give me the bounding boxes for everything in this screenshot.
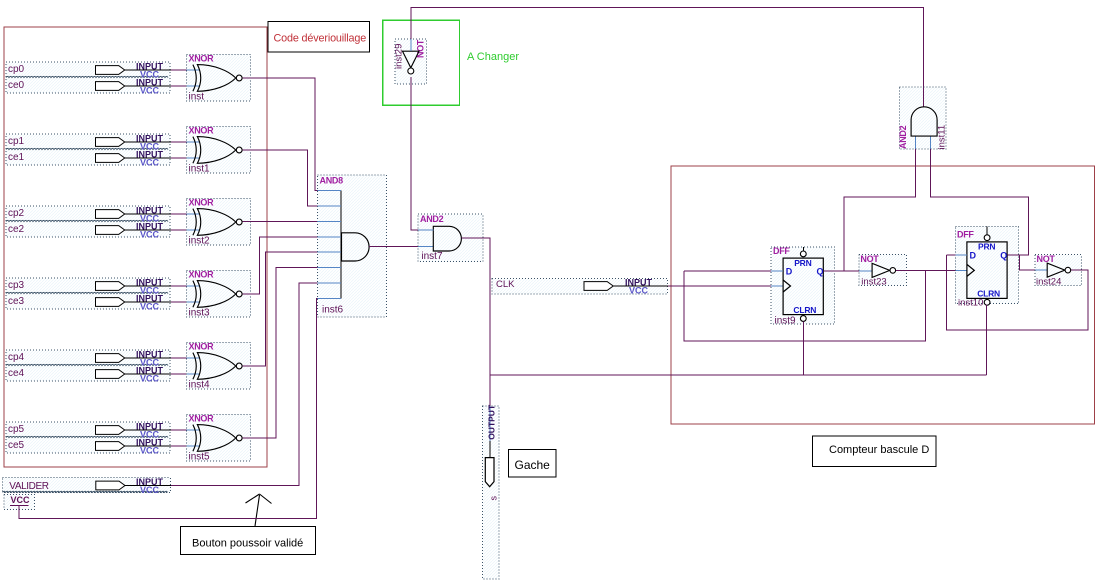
svg-text:AND8: AND8	[320, 175, 344, 185]
wire cp3 to XNOR	[171, 285, 200, 287]
XNOR gate inst3 box	[187, 270, 251, 319]
XNOR gate inst4 box	[187, 342, 251, 391]
svg-text:inst9: inst9	[775, 315, 797, 326]
svg-text:A Changer: A Changer	[467, 51, 519, 63]
input pin cp2	[96, 206, 172, 224]
svg-text:XNOR: XNOR	[189, 270, 215, 280]
svg-text:VCC: VCC	[140, 446, 160, 456]
svg-text:ce1: ce1	[8, 152, 25, 163]
XNOR gate inst2 box	[187, 198, 251, 247]
D flip-flop inst9	[771, 246, 834, 326]
svg-text:Code déveriouillage: Code déveriouillage	[274, 33, 367, 45]
svg-text:inst5: inst5	[189, 452, 211, 463]
svg-text:ce4: ce4	[8, 368, 25, 379]
wire XNOR0 out to AND8 in1	[242, 78, 317, 191]
wire ce5 to XNOR	[171, 445, 200, 447]
svg-text:inst10: inst10	[958, 298, 983, 309]
wire ce3 to XNOR	[171, 301, 200, 303]
NOT gate inst29 (vertical)	[394, 39, 427, 84]
frame: red region box Compteur bascule D	[671, 166, 1095, 424]
label box Gache	[509, 450, 556, 478]
input pin ce3	[96, 294, 172, 312]
wire XNOR2 out to AND8 in3	[242, 221, 317, 223]
wire VALIDER to AND8 in7	[171, 283, 318, 485]
wire XNOR4 out to AND8 in5	[242, 252, 317, 366]
input pin cp5	[96, 422, 172, 440]
svg-text:cp1: cp1	[8, 136, 25, 147]
svg-text:ce5: ce5	[8, 440, 25, 451]
svg-text:VCC: VCC	[140, 302, 160, 312]
svg-text:XNOR: XNOR	[189, 126, 215, 136]
svg-text:D: D	[786, 266, 793, 276]
pin name cp4	[8, 352, 25, 363]
selection box inputs cp4/ce4	[6, 350, 170, 381]
svg-text:XNOR: XNOR	[189, 414, 215, 424]
svg-text:inst2: inst2	[189, 236, 211, 247]
pin name VALIDER	[9, 481, 48, 492]
selection box inputs cp1/ce1	[6, 134, 170, 165]
wire XNOR5 out to AND8 in6	[242, 268, 317, 438]
svg-text:inst7: inst7	[421, 251, 443, 262]
selection box inputs cp3/ce3	[6, 278, 170, 309]
pin name ce4	[8, 368, 25, 379]
frame: red region box Code deverrouillage	[4, 27, 267, 467]
svg-text:DFF: DFF	[957, 230, 974, 240]
wire DFF inst10 CLRN	[986, 305, 988, 376]
svg-text:inst6: inst6	[322, 305, 344, 316]
pin name cp3	[8, 280, 25, 291]
input pin cp4	[96, 350, 172, 368]
XNOR gate inst box	[187, 54, 251, 103]
wire cp1 to XNOR	[171, 141, 200, 143]
wire ce4 to XNOR	[171, 373, 200, 375]
NOT gate inst24	[1035, 254, 1081, 288]
input pin ce1	[96, 150, 172, 168]
svg-text:cp0: cp0	[8, 64, 25, 75]
svg-text:VCC: VCC	[140, 230, 160, 240]
wire cp2 to XNOR	[171, 213, 200, 215]
svg-text:inst23: inst23	[861, 277, 886, 288]
wire cp5 to XNOR	[171, 429, 200, 431]
svg-text:cp4: cp4	[8, 352, 25, 363]
selection box inputs cp0/ce0	[6, 62, 170, 93]
pin name cp1	[8, 136, 25, 147]
wire DFF inst9 D input	[684, 270, 783, 272]
svg-text:cp2: cp2	[8, 208, 25, 219]
svg-text:Q: Q	[1000, 250, 1007, 260]
pin name ce1	[8, 152, 25, 163]
svg-text:ce3: ce3	[8, 296, 25, 307]
svg-text:CLRN: CLRN	[793, 305, 816, 315]
label box Bouton poussoir valide	[181, 526, 316, 554]
wire cp4 to XNOR	[171, 357, 200, 359]
pin name cp5	[8, 424, 25, 435]
selection box VALIDER	[3, 478, 171, 493]
svg-text:VCC: VCC	[140, 158, 160, 168]
input pin cp0	[96, 62, 172, 80]
label A Changer	[467, 51, 519, 63]
svg-text:AND2: AND2	[420, 214, 444, 224]
wire AND8 out to AND2 inst7	[369, 245, 433, 247]
wire NOT23 out to DFF inst10 clock and feedback	[684, 270, 967, 341]
svg-text:VCC: VCC	[140, 86, 160, 96]
pin name cp0	[8, 64, 25, 75]
wire DFF inst9 CLRN	[802, 322, 804, 375]
wire ce1 to XNOR	[171, 157, 200, 159]
svg-text:inst4: inst4	[189, 380, 211, 391]
pin name ce0	[8, 80, 25, 91]
wire CLK to DFF inst9 clock	[668, 285, 783, 287]
label box Code deverrouillage	[268, 21, 370, 52]
output pin s	[483, 404, 500, 579]
svg-text:Q: Q	[817, 266, 824, 276]
XNOR gate inst5 box	[187, 414, 251, 463]
wire AND2 inst11 out to NOT29 in	[411, 8, 924, 107]
AND8 gate inst6	[318, 175, 387, 317]
svg-text:AND2: AND2	[898, 125, 908, 149]
AND2 gate inst7	[418, 214, 483, 262]
svg-text:NOT: NOT	[860, 254, 879, 264]
wire AND2 inst7 out to output node	[461, 238, 490, 458]
svg-text:NOT: NOT	[1037, 254, 1056, 264]
wire NOT24 out feedback to inst10 D	[946, 255, 1088, 330]
svg-text:VCC: VCC	[140, 374, 160, 384]
pin name cp2	[8, 208, 25, 219]
svg-text:XNOR: XNOR	[189, 54, 215, 64]
svg-text:VCC: VCC	[629, 286, 649, 296]
selection box inputs cp5/ce5	[6, 422, 170, 453]
input pin cp3	[96, 278, 172, 296]
pin name ce3	[8, 296, 25, 307]
green highlight box A Changer	[383, 20, 460, 105]
wire ce2 to XNOR	[171, 229, 200, 231]
svg-text:cp3: cp3	[8, 280, 25, 291]
svg-text:D: D	[970, 250, 977, 260]
input pin CLK	[492, 278, 668, 296]
wire reset net to DFF CLRN	[490, 374, 987, 376]
pin name ce2	[8, 224, 25, 235]
svg-text:VCC: VCC	[11, 495, 31, 505]
wire inst10 Q branch to NOT24	[1020, 255, 1048, 270]
svg-text:inst1: inst1	[189, 164, 211, 175]
input pin ce0	[96, 78, 172, 96]
svg-text:OUTPUT: OUTPUT	[486, 404, 496, 440]
svg-text:PRN: PRN	[794, 258, 811, 268]
input pin VALIDER	[96, 477, 171, 495]
VCC power symbol	[4, 494, 34, 509]
svg-text:PRN: PRN	[978, 242, 995, 252]
wire NOT29 out to AND2 inst7 in1	[411, 77, 434, 230]
svg-text:inst11: inst11	[937, 125, 948, 150]
input pin ce2	[96, 222, 172, 240]
D flip-flop inst10	[955, 227, 1018, 309]
svg-text:DFF: DFF	[773, 246, 790, 256]
svg-text:Gache: Gache	[515, 458, 551, 472]
svg-text:Bouton poussoir validé: Bouton poussoir validé	[192, 538, 303, 550]
svg-text:inst3: inst3	[189, 308, 211, 319]
XNOR gate inst1 box	[187, 126, 251, 175]
AND2 gate inst11 (vertical)	[898, 87, 948, 149]
wire XNOR1 out to AND8 in2	[242, 150, 317, 206]
svg-text:inst: inst	[189, 92, 205, 103]
input pin ce5	[96, 438, 172, 456]
wire VCC to AND8 in8	[19, 299, 317, 519]
wire DFF inst10 Q out	[931, 136, 1029, 255]
label box Compteur bascule D	[812, 436, 936, 467]
wire DFF inst9 Q to NOT23	[823, 270, 872, 272]
annotation arrow to VALIDER wire	[246, 494, 272, 526]
svg-text:VALIDER: VALIDER	[9, 481, 48, 492]
NOT gate inst23	[859, 254, 907, 288]
svg-text:XNOR: XNOR	[189, 342, 215, 352]
wire inst11 input stubs	[916, 149, 931, 197]
wire ce0 to XNOR	[171, 85, 200, 87]
svg-text:inst24: inst24	[1036, 277, 1061, 288]
input pin cp1	[96, 134, 172, 152]
selection box inputs cp2/ce2	[6, 206, 170, 237]
wire XNOR3 out to AND8 in4	[242, 237, 317, 294]
svg-text:ce0: ce0	[8, 80, 25, 91]
svg-text:VCC: VCC	[140, 485, 160, 495]
svg-text:s: s	[488, 496, 498, 501]
input pin ce4	[96, 366, 172, 384]
wire cp0 to XNOR	[171, 69, 200, 71]
svg-text:XNOR: XNOR	[189, 198, 215, 208]
pin name ce5	[8, 440, 25, 451]
svg-text:cp5: cp5	[8, 424, 25, 435]
wire inst9 Q branch to AND2 inst11	[844, 136, 916, 271]
svg-text:Compteur bascule D: Compteur bascule D	[829, 444, 929, 456]
wire DFF inst10 D input	[946, 254, 967, 256]
svg-text:ce2: ce2	[8, 224, 25, 235]
svg-text:CLK: CLK	[496, 279, 515, 290]
svg-text:inst29: inst29	[394, 44, 405, 69]
